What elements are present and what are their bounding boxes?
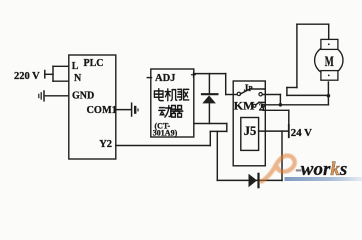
svg-text:COM1: COM1 — [87, 105, 117, 116]
svg-text:N: N — [74, 73, 82, 84]
svg-text:P: P — [248, 85, 253, 93]
svg-text:220 V: 220 V — [14, 71, 40, 82]
svg-text:Y2: Y2 — [99, 139, 112, 150]
svg-text:+: + — [191, 71, 197, 82]
svg-text:L: L — [72, 61, 79, 72]
svg-text:PLC: PLC — [84, 58, 104, 69]
svg-text:301A9): 301A9) — [153, 129, 178, 138]
svg-text:M: M — [325, 54, 334, 70]
svg-text:GND: GND — [72, 91, 94, 102]
svg-text:KM: KM — [234, 99, 255, 113]
svg-text:J5: J5 — [244, 124, 256, 138]
svg-text:2: 2 — [259, 103, 264, 114]
svg-text:works: works — [301, 159, 347, 180]
svg-text:ADJ: ADJ — [155, 73, 175, 84]
svg-text:24 V: 24 V — [291, 127, 312, 139]
